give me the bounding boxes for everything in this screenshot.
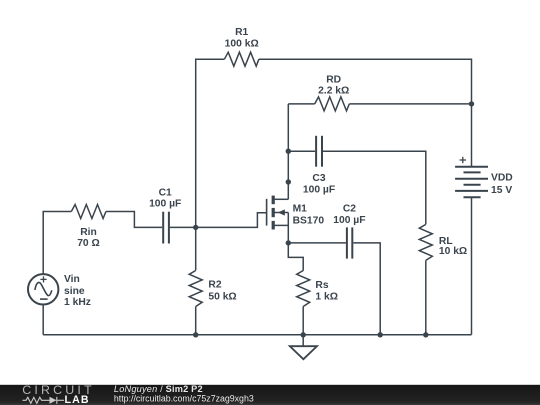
node dots <box>193 101 474 337</box>
label Vin <box>64 274 91 308</box>
svg-text:LAB: LAB <box>65 394 90 405</box>
wire Rs bottom <box>302 307 304 335</box>
wire Rs jog <box>288 243 303 271</box>
wire node A to gate <box>196 213 267 228</box>
svg-text:RD: RD <box>326 74 341 85</box>
svg-text:1 kHz: 1 kHz <box>64 297 91 308</box>
svg-text:C2: C2 <box>343 204 356 215</box>
svg-text:M1: M1 <box>293 203 308 214</box>
svg-text:R2: R2 <box>208 280 221 291</box>
capacitor C3 <box>316 136 322 167</box>
wire Rin to C1 <box>106 212 162 228</box>
svg-text:LoNguyen / Sim2 P2: LoNguyen / Sim2 P2 <box>114 384 203 394</box>
battery VDD <box>455 167 488 197</box>
svg-text:100 µF: 100 µF <box>149 199 181 210</box>
svg-text:10 kΩ: 10 kΩ <box>439 246 467 257</box>
wire C2 right down <box>353 243 380 335</box>
svg-text:sine: sine <box>64 286 85 297</box>
svg-text:Rs: Rs <box>315 280 328 291</box>
CircuitLab logo squiggle and diode <box>23 397 65 404</box>
svg-text:Vin: Vin <box>64 274 80 285</box>
label M1 <box>293 203 325 226</box>
svg-text:50 kΩ: 50 kΩ <box>208 291 236 302</box>
svg-text:100 µF: 100 µF <box>303 185 335 196</box>
wire C3 right to RL top <box>323 151 426 224</box>
wire RL bottom <box>425 260 427 334</box>
svg-text:100 kΩ: 100 kΩ <box>225 39 259 50</box>
wire R1 to VDD top <box>259 59 472 166</box>
svg-text:C3: C3 <box>312 173 325 184</box>
svg-text:2.2 kΩ: 2.2 kΩ <box>318 86 349 97</box>
wire C2 left lead <box>288 242 346 244</box>
wire drain vertical <box>287 104 289 199</box>
svg-text:VDD: VDD <box>491 173 513 184</box>
svg-text:15 V: 15 V <box>491 185 512 196</box>
wire battery bottom lead <box>471 197 473 335</box>
resistor RD <box>315 97 350 111</box>
svg-text:BS170: BS170 <box>293 215 325 226</box>
wire RD to VDD rail <box>349 103 471 105</box>
resistor RL <box>419 224 432 260</box>
wire bottom rail <box>43 334 471 336</box>
resistor Rin <box>71 205 106 219</box>
svg-text:R1: R1 <box>235 27 248 38</box>
voltage source Vin <box>28 274 58 304</box>
wire Vin top to Rin <box>43 212 71 275</box>
svg-text:70 Ω: 70 Ω <box>77 238 100 249</box>
capacitor C2 <box>347 227 352 258</box>
wire RD left lead <box>288 103 314 105</box>
wire R2 bottom <box>195 307 197 335</box>
resistor R2 <box>189 271 202 307</box>
svg-text:100 µF: 100 µF <box>333 215 365 226</box>
svg-text:1 kΩ: 1 kΩ <box>315 291 338 302</box>
wire C1 to node A <box>170 226 196 228</box>
svg-text:C1: C1 <box>159 188 172 199</box>
wire C3 left lead <box>288 150 315 152</box>
battery plus sign <box>460 157 466 163</box>
transistor M1 <box>267 196 289 243</box>
wire Vin bottom lead <box>42 305 44 335</box>
resistor Rs <box>297 271 310 307</box>
capacitor C1 <box>163 212 169 244</box>
ground <box>290 335 317 359</box>
wire R2 top <box>195 227 197 270</box>
resistor R1 <box>224 52 259 66</box>
svg-text:http://circuitlab.com/c75z7zag: http://circuitlab.com/c75z7zag9xgh3 <box>114 394 254 404</box>
wire node A up to R1 <box>196 59 225 227</box>
svg-text:Rin: Rin <box>80 227 97 238</box>
